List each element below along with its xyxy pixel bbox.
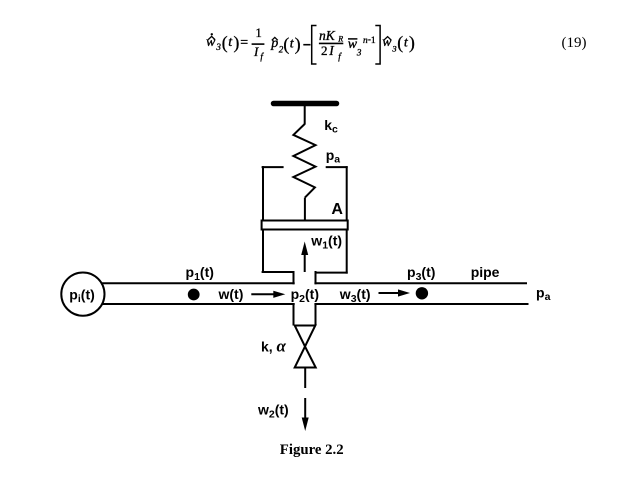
svg-text:p2(t): p2(t)	[291, 286, 319, 305]
svg-text:1: 1	[371, 36, 376, 46]
svg-text:w(t): w(t)	[218, 286, 244, 302]
svg-text:): )	[234, 32, 240, 52]
svg-text:w1(t): w1(t)	[310, 232, 342, 251]
svg-text:A: A	[331, 201, 343, 218]
svg-text:3: 3	[356, 47, 362, 57]
svg-text:3: 3	[215, 42, 221, 52]
svg-text:k,: k,	[261, 338, 273, 354]
svg-text:Figure 2.2: Figure 2.2	[280, 442, 344, 458]
svg-text:kc: kc	[324, 117, 338, 136]
svg-text:pipe: pipe	[471, 264, 500, 280]
svg-text:1: 1	[256, 26, 262, 40]
svg-text:n: n	[363, 36, 368, 46]
svg-text:α: α	[277, 336, 287, 355]
svg-text:K: K	[325, 28, 336, 43]
svg-text:f: f	[338, 52, 342, 62]
svg-text:pi(t): pi(t)	[69, 286, 94, 305]
svg-text:2: 2	[321, 43, 328, 58]
svg-text:p3(t): p3(t)	[407, 264, 435, 283]
svg-text:I: I	[253, 44, 259, 59]
svg-text:p1(t): p1(t)	[186, 264, 214, 283]
svg-text:(: (	[397, 32, 403, 52]
svg-text:I: I	[328, 43, 335, 58]
svg-text:w3(t): w3(t)	[339, 286, 371, 305]
svg-text:R: R	[337, 35, 343, 44]
svg-text:(19): (19)	[562, 35, 587, 51]
svg-text:pa: pa	[326, 147, 341, 166]
svg-text:): )	[409, 32, 415, 52]
svg-text:(: (	[222, 32, 228, 52]
svg-text:): )	[295, 34, 301, 54]
svg-text:w2(t): w2(t)	[257, 401, 289, 420]
svg-text:=: =	[240, 36, 248, 51]
svg-text:(: (	[283, 34, 289, 54]
svg-text:pa: pa	[536, 285, 551, 304]
svg-text:f: f	[260, 52, 264, 62]
svg-text:3: 3	[391, 43, 396, 53]
